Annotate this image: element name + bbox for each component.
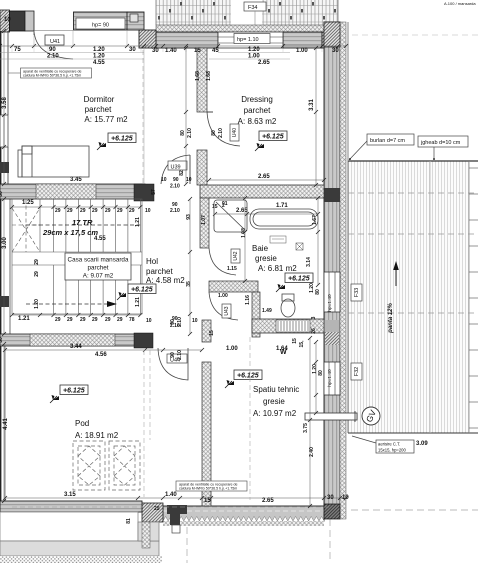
terrace / eave below Pod xyxy=(0,512,162,563)
dim row stairs top xyxy=(10,200,192,220)
Baie bathtub xyxy=(250,209,318,229)
svg-text:10: 10 xyxy=(192,318,198,324)
roof dashed section lines xyxy=(348,35,478,313)
svg-text:caldura M-WRG 50*36.5 h.p.+1.7: caldura M-WRG 50*36.5 h.p.+1.75m xyxy=(179,487,237,491)
Dormitor bed xyxy=(18,146,89,177)
svg-text:2.10: 2.10 xyxy=(177,317,183,327)
svg-text:A: 18.91 m2: A: 18.91 m2 xyxy=(75,431,119,440)
left wall Pod xyxy=(1,344,5,501)
svg-text:82: 82 xyxy=(179,170,185,176)
svg-text:U41: U41 xyxy=(50,39,60,45)
room Pod xyxy=(75,419,119,440)
wall Pod/Spatiu tehnic (vertical) xyxy=(202,320,211,506)
svg-text:10: 10 xyxy=(161,177,167,183)
svg-text:2.10: 2.10 xyxy=(187,128,193,138)
svg-text:29cm x 17,5 cm: 29cm x 17,5 cm xyxy=(42,228,98,237)
label aerisire C.T. xyxy=(352,436,428,453)
room Hol xyxy=(146,257,185,285)
extension lines walls xyxy=(0,30,290,184)
staircase Casa scarii xyxy=(12,199,142,314)
svg-text:Dressing: Dressing xyxy=(241,95,273,104)
svg-text:15: 15 xyxy=(194,48,201,54)
room Dressing xyxy=(238,95,277,126)
svg-text:1.68: 1.68 xyxy=(206,71,212,81)
svg-text:1.07: 1.07 xyxy=(201,215,207,225)
door U39 (Dormitor) xyxy=(161,155,192,190)
svg-text:3.14: 3.14 xyxy=(306,257,312,267)
left wall stairs xyxy=(0,184,10,344)
Dressing bottom dim xyxy=(207,174,326,182)
svg-text:1.21: 1.21 xyxy=(135,217,141,227)
svg-text:parchet: parchet xyxy=(87,265,108,272)
note aparat de ventilatie (top) xyxy=(8,68,92,78)
svg-text:1.00: 1.00 xyxy=(218,293,228,299)
svg-text:4.55: 4.55 xyxy=(94,236,106,242)
svg-text:15: 15 xyxy=(209,330,215,336)
svg-text:A.100 / mansarda: A.100 / mansarda xyxy=(444,1,476,6)
svg-text:+6.125: +6.125 xyxy=(63,388,85,395)
svg-text:1.15: 1.15 xyxy=(227,266,237,272)
exterior wall bottom xyxy=(142,503,340,533)
svg-text:U43: U43 xyxy=(224,306,230,315)
svg-text:3.44: 3.44 xyxy=(70,344,82,350)
svg-text:90: 90 xyxy=(173,177,179,183)
svg-text:F34: F34 xyxy=(248,5,257,11)
svg-text:78: 78 xyxy=(129,317,135,323)
svg-text:15: 15 xyxy=(212,204,218,210)
svg-text:29: 29 xyxy=(92,317,98,323)
svg-text:29: 29 xyxy=(92,208,98,214)
svg-text:2.10: 2.10 xyxy=(170,208,180,214)
svg-text:1.00: 1.00 xyxy=(296,48,308,54)
svg-text:1.20: 1.20 xyxy=(248,47,260,53)
svg-text:hp=1.40: hp=1.40 xyxy=(327,369,333,387)
svg-text:caldura M-WRG 50*36.5 h.p.+1.7: caldura M-WRG 50*36.5 h.p.+1.75m xyxy=(23,74,81,78)
svg-text:parchet: parchet xyxy=(146,267,173,276)
svg-text:30: 30 xyxy=(327,495,334,501)
svg-text:3.31: 3.31 xyxy=(309,99,315,111)
svg-text:3.75: 3.75 xyxy=(303,423,309,433)
svg-text:30: 30 xyxy=(0,191,4,197)
vertical dims Hol xyxy=(170,317,183,360)
svg-text:F32: F32 xyxy=(354,367,360,376)
svg-text:+6.125: +6.125 xyxy=(131,287,153,294)
construction dashed lines interior xyxy=(143,50,250,500)
svg-text:90: 90 xyxy=(170,352,176,358)
svg-text:Casa scarii mansarda: Casa scarii mansarda xyxy=(68,257,129,264)
Baie counter/sink xyxy=(214,200,247,232)
wall Dressing/Baie (horizontal) xyxy=(200,185,324,198)
svg-text:2.65: 2.65 xyxy=(258,60,270,66)
svg-text:panta 12%: panta 12% xyxy=(388,303,394,334)
svg-text:75: 75 xyxy=(14,47,21,53)
Baie small appliance boxes xyxy=(270,236,303,250)
svg-text:30: 30 xyxy=(0,337,4,343)
dim row Pod bottom xyxy=(3,492,349,504)
Pod bottom wall xyxy=(0,501,330,512)
door U44 (Hol to Pod) xyxy=(158,348,188,380)
svg-text:Spatiu tehnic: Spatiu tehnic xyxy=(253,385,299,394)
Baie WC xyxy=(281,294,295,317)
svg-text:1.00: 1.00 xyxy=(226,346,238,352)
exterior wall top (Dressing side) xyxy=(156,32,338,48)
svg-text:+6.125: +6.125 xyxy=(288,276,310,283)
window F32 in right wall xyxy=(324,362,362,395)
wall stairs/Pod (horizontal) xyxy=(0,333,153,348)
svg-text:10: 10 xyxy=(186,177,192,183)
svg-text:2.10: 2.10 xyxy=(170,184,180,190)
window hp=1.10 in top wall xyxy=(218,32,283,48)
svg-text:hp=1.40: hp=1.40 xyxy=(327,294,333,312)
left wall Dormitor xyxy=(0,31,9,184)
extension grid lines xyxy=(12,44,338,52)
svg-text:1.40: 1.40 xyxy=(165,492,177,498)
svg-text:29: 29 xyxy=(67,317,73,323)
svg-text:29: 29 xyxy=(80,317,86,323)
vertical dims stairs right xyxy=(34,217,141,309)
svg-text:1.71: 1.71 xyxy=(276,203,288,209)
svg-text:1.25: 1.25 xyxy=(22,200,34,206)
svg-text:15: 15 xyxy=(204,498,211,504)
svg-text:+6.125: +6.125 xyxy=(237,373,259,380)
svg-text:80: 80 xyxy=(315,289,321,295)
svg-text:93: 93 xyxy=(186,214,192,220)
top roof band (hatched) xyxy=(156,0,338,25)
svg-text:A: 6.81 m2: A: 6.81 m2 xyxy=(258,264,297,273)
svg-text:3.00: 3.00 xyxy=(2,237,8,249)
skylight label F34 xyxy=(244,2,266,25)
svg-text:A: 9.07 m2: A: 9.07 m2 xyxy=(83,273,114,280)
svg-text:A: 4.58 m2: A: 4.58 m2 xyxy=(146,276,185,285)
svg-text:U42: U42 xyxy=(233,251,239,260)
window F33 in right wall xyxy=(324,272,362,312)
svg-text:2.65: 2.65 xyxy=(258,174,270,180)
room Baie xyxy=(252,244,297,273)
room Spatiu tehnic xyxy=(253,385,299,418)
svg-text:35: 35 xyxy=(186,281,192,287)
svg-text:gresie: gresie xyxy=(263,397,285,406)
svg-text:1.68: 1.68 xyxy=(195,71,201,81)
level +6.125 stairs xyxy=(128,284,156,294)
door U43 (Baie lower) xyxy=(209,292,238,320)
Casa scarii room label box xyxy=(65,253,131,280)
svg-text:29: 29 xyxy=(55,208,61,214)
insulation strip under top roof band xyxy=(156,25,338,32)
svg-text:1.21: 1.21 xyxy=(18,316,30,322)
svg-text:+6.125: +6.125 xyxy=(111,136,133,143)
svg-text:Pod: Pod xyxy=(75,419,89,428)
svg-text:parchet: parchet xyxy=(85,105,112,114)
wall Dormitor/stairs (horizontal) xyxy=(0,184,154,201)
Baie top dim xyxy=(201,201,320,225)
svg-text:30: 30 xyxy=(332,48,339,54)
svg-text:+6.125: +6.125 xyxy=(262,134,284,141)
svg-text:91: 91 xyxy=(222,201,228,207)
stair labels 17 TR xyxy=(42,218,106,242)
svg-text:80: 80 xyxy=(180,130,186,136)
svg-text:3.58: 3.58 xyxy=(2,97,8,109)
svg-text:jgheab d=10 cm: jgheab d=10 cm xyxy=(420,140,461,146)
svg-text:1.21: 1.21 xyxy=(135,297,141,307)
tiny 15 labels xyxy=(151,189,305,347)
svg-text:10: 10 xyxy=(146,318,152,324)
svg-text:29: 29 xyxy=(55,317,61,323)
svg-text:W: W xyxy=(280,349,287,356)
svg-text:29: 29 xyxy=(105,208,111,214)
svg-text:10: 10 xyxy=(342,495,349,501)
Baie small dims xyxy=(186,266,272,314)
svg-text:U40: U40 xyxy=(232,128,238,137)
svg-text:hp= 90: hp= 90 xyxy=(92,23,109,29)
svg-text:2.10: 2.10 xyxy=(47,54,59,60)
svg-text:90: 90 xyxy=(49,47,56,53)
svg-text:45: 45 xyxy=(212,48,219,54)
exterior wall top (Dormitor) window hp=90 xyxy=(74,12,145,30)
svg-text:17 TR: 17 TR xyxy=(72,218,93,227)
GV vent pipe xyxy=(305,407,380,425)
svg-text:30: 30 xyxy=(129,47,136,53)
note aparat de ventilatie (bottom) xyxy=(176,481,247,503)
svg-text:3.45: 3.45 xyxy=(70,177,82,183)
dashed lines bottom right xyxy=(187,510,478,563)
wall Baie/Spatiu tehnic (horizontal) with radiator xyxy=(252,319,324,333)
door U40 (to Dressing) xyxy=(207,112,240,146)
svg-text:26: 26 xyxy=(311,328,317,334)
vertical dims left edge xyxy=(0,29,9,503)
svg-text:10: 10 xyxy=(4,17,11,23)
svg-text:57: 57 xyxy=(151,189,157,195)
stepped wall Hol/Baie lower xyxy=(209,281,260,337)
svg-text:1.20: 1.20 xyxy=(34,299,40,309)
step wall piece xyxy=(139,30,156,48)
svg-text:1.49: 1.49 xyxy=(262,308,272,314)
svg-text:80: 80 xyxy=(318,370,324,376)
svg-text:A: 10.97 m2: A: 10.97 m2 xyxy=(253,409,297,418)
svg-text:A: 15.77 m2: A: 15.77 m2 xyxy=(84,115,128,124)
svg-text:2.40: 2.40 xyxy=(309,447,315,457)
svg-text:2.65: 2.65 xyxy=(236,208,248,214)
svg-text:A: 8.63 m2: A: 8.63 m2 xyxy=(238,117,277,126)
svg-text:F33: F33 xyxy=(354,288,360,297)
door U42 (to Baie) xyxy=(209,248,240,275)
svg-text:2.65: 2.65 xyxy=(262,498,274,504)
exterior wall right xyxy=(324,22,346,519)
label burlan d=7 cm xyxy=(349,134,414,160)
svg-text:Dormitor: Dormitor xyxy=(84,95,115,104)
svg-text:2.10: 2.10 xyxy=(177,350,183,360)
svg-text:2.10: 2.10 xyxy=(218,128,224,138)
dim row stairs bottom xyxy=(10,313,198,329)
svg-text:15x15, hp=200: 15x15, hp=200 xyxy=(378,448,406,453)
vertical dims Baie right xyxy=(241,215,321,334)
svg-text:15,: 15, xyxy=(299,340,305,348)
svg-text:90: 90 xyxy=(170,319,176,325)
svg-text:3.15: 3.15 xyxy=(64,492,76,498)
svg-text:15: 15 xyxy=(292,338,298,344)
svg-text:29: 29 xyxy=(117,317,123,323)
exterior corner top-left xyxy=(0,10,34,32)
svg-text:Hol: Hol xyxy=(146,257,158,266)
roof plane right (hatched) xyxy=(348,22,478,433)
svg-text:29: 29 xyxy=(117,208,123,214)
svg-text:29: 29 xyxy=(67,208,73,214)
svg-text:hp= 1.10: hp= 1.10 xyxy=(237,37,259,43)
svg-text:80: 80 xyxy=(211,130,217,136)
stair walk line with arrow xyxy=(26,225,141,307)
svg-text:29: 29 xyxy=(34,271,40,277)
svg-text:4.56: 4.56 xyxy=(95,352,107,358)
svg-text:29: 29 xyxy=(80,208,86,214)
svg-text:1.20: 1.20 xyxy=(93,47,105,53)
svg-text:3: 3 xyxy=(311,316,317,319)
svg-text:U39: U39 xyxy=(171,165,181,171)
svg-text:10: 10 xyxy=(145,208,151,214)
wall Dormitor/Dressing (vertical) xyxy=(197,48,207,185)
svg-text:29: 29 xyxy=(34,259,40,265)
svg-text:81: 81 xyxy=(126,518,132,524)
svg-text:4.41: 4.41 xyxy=(3,418,9,430)
svg-text:aerisire C.T.: aerisire C.T. xyxy=(378,442,400,447)
svg-text:3.09: 3.09 xyxy=(416,441,428,447)
svg-text:29: 29 xyxy=(129,208,135,214)
svg-text:30: 30 xyxy=(152,48,159,54)
dim row under top wall xyxy=(0,44,348,66)
svg-text:Baie: Baie xyxy=(252,244,269,253)
vertical dims Spatiu right xyxy=(303,336,324,508)
label jgheab d=10 cm xyxy=(349,136,468,160)
dim row under stairs wall xyxy=(3,344,288,358)
svg-text:burlan d=7 cm: burlan d=7 cm xyxy=(370,138,405,144)
svg-text:1.40: 1.40 xyxy=(165,48,177,54)
panta 12% slope arrow xyxy=(388,261,399,334)
Pod skylight dashed boxes xyxy=(73,441,140,490)
vertical dims Dormitor/Dressing xyxy=(180,71,315,138)
svg-text:gresie: gresie xyxy=(255,254,277,263)
wall Hol/Baie (vertical) xyxy=(200,198,209,248)
svg-text:1.00: 1.00 xyxy=(248,54,260,60)
svg-text:1.20: 1.20 xyxy=(93,54,105,60)
svg-text:1.16: 1.16 xyxy=(245,295,251,305)
svg-text:parchet: parchet xyxy=(244,106,271,115)
room Dormitor xyxy=(84,95,128,124)
vertical dim chains interior xyxy=(184,46,320,415)
door U41 opening arc xyxy=(34,31,73,60)
svg-text:4.55: 4.55 xyxy=(93,60,105,66)
svg-text:29: 29 xyxy=(105,317,111,323)
